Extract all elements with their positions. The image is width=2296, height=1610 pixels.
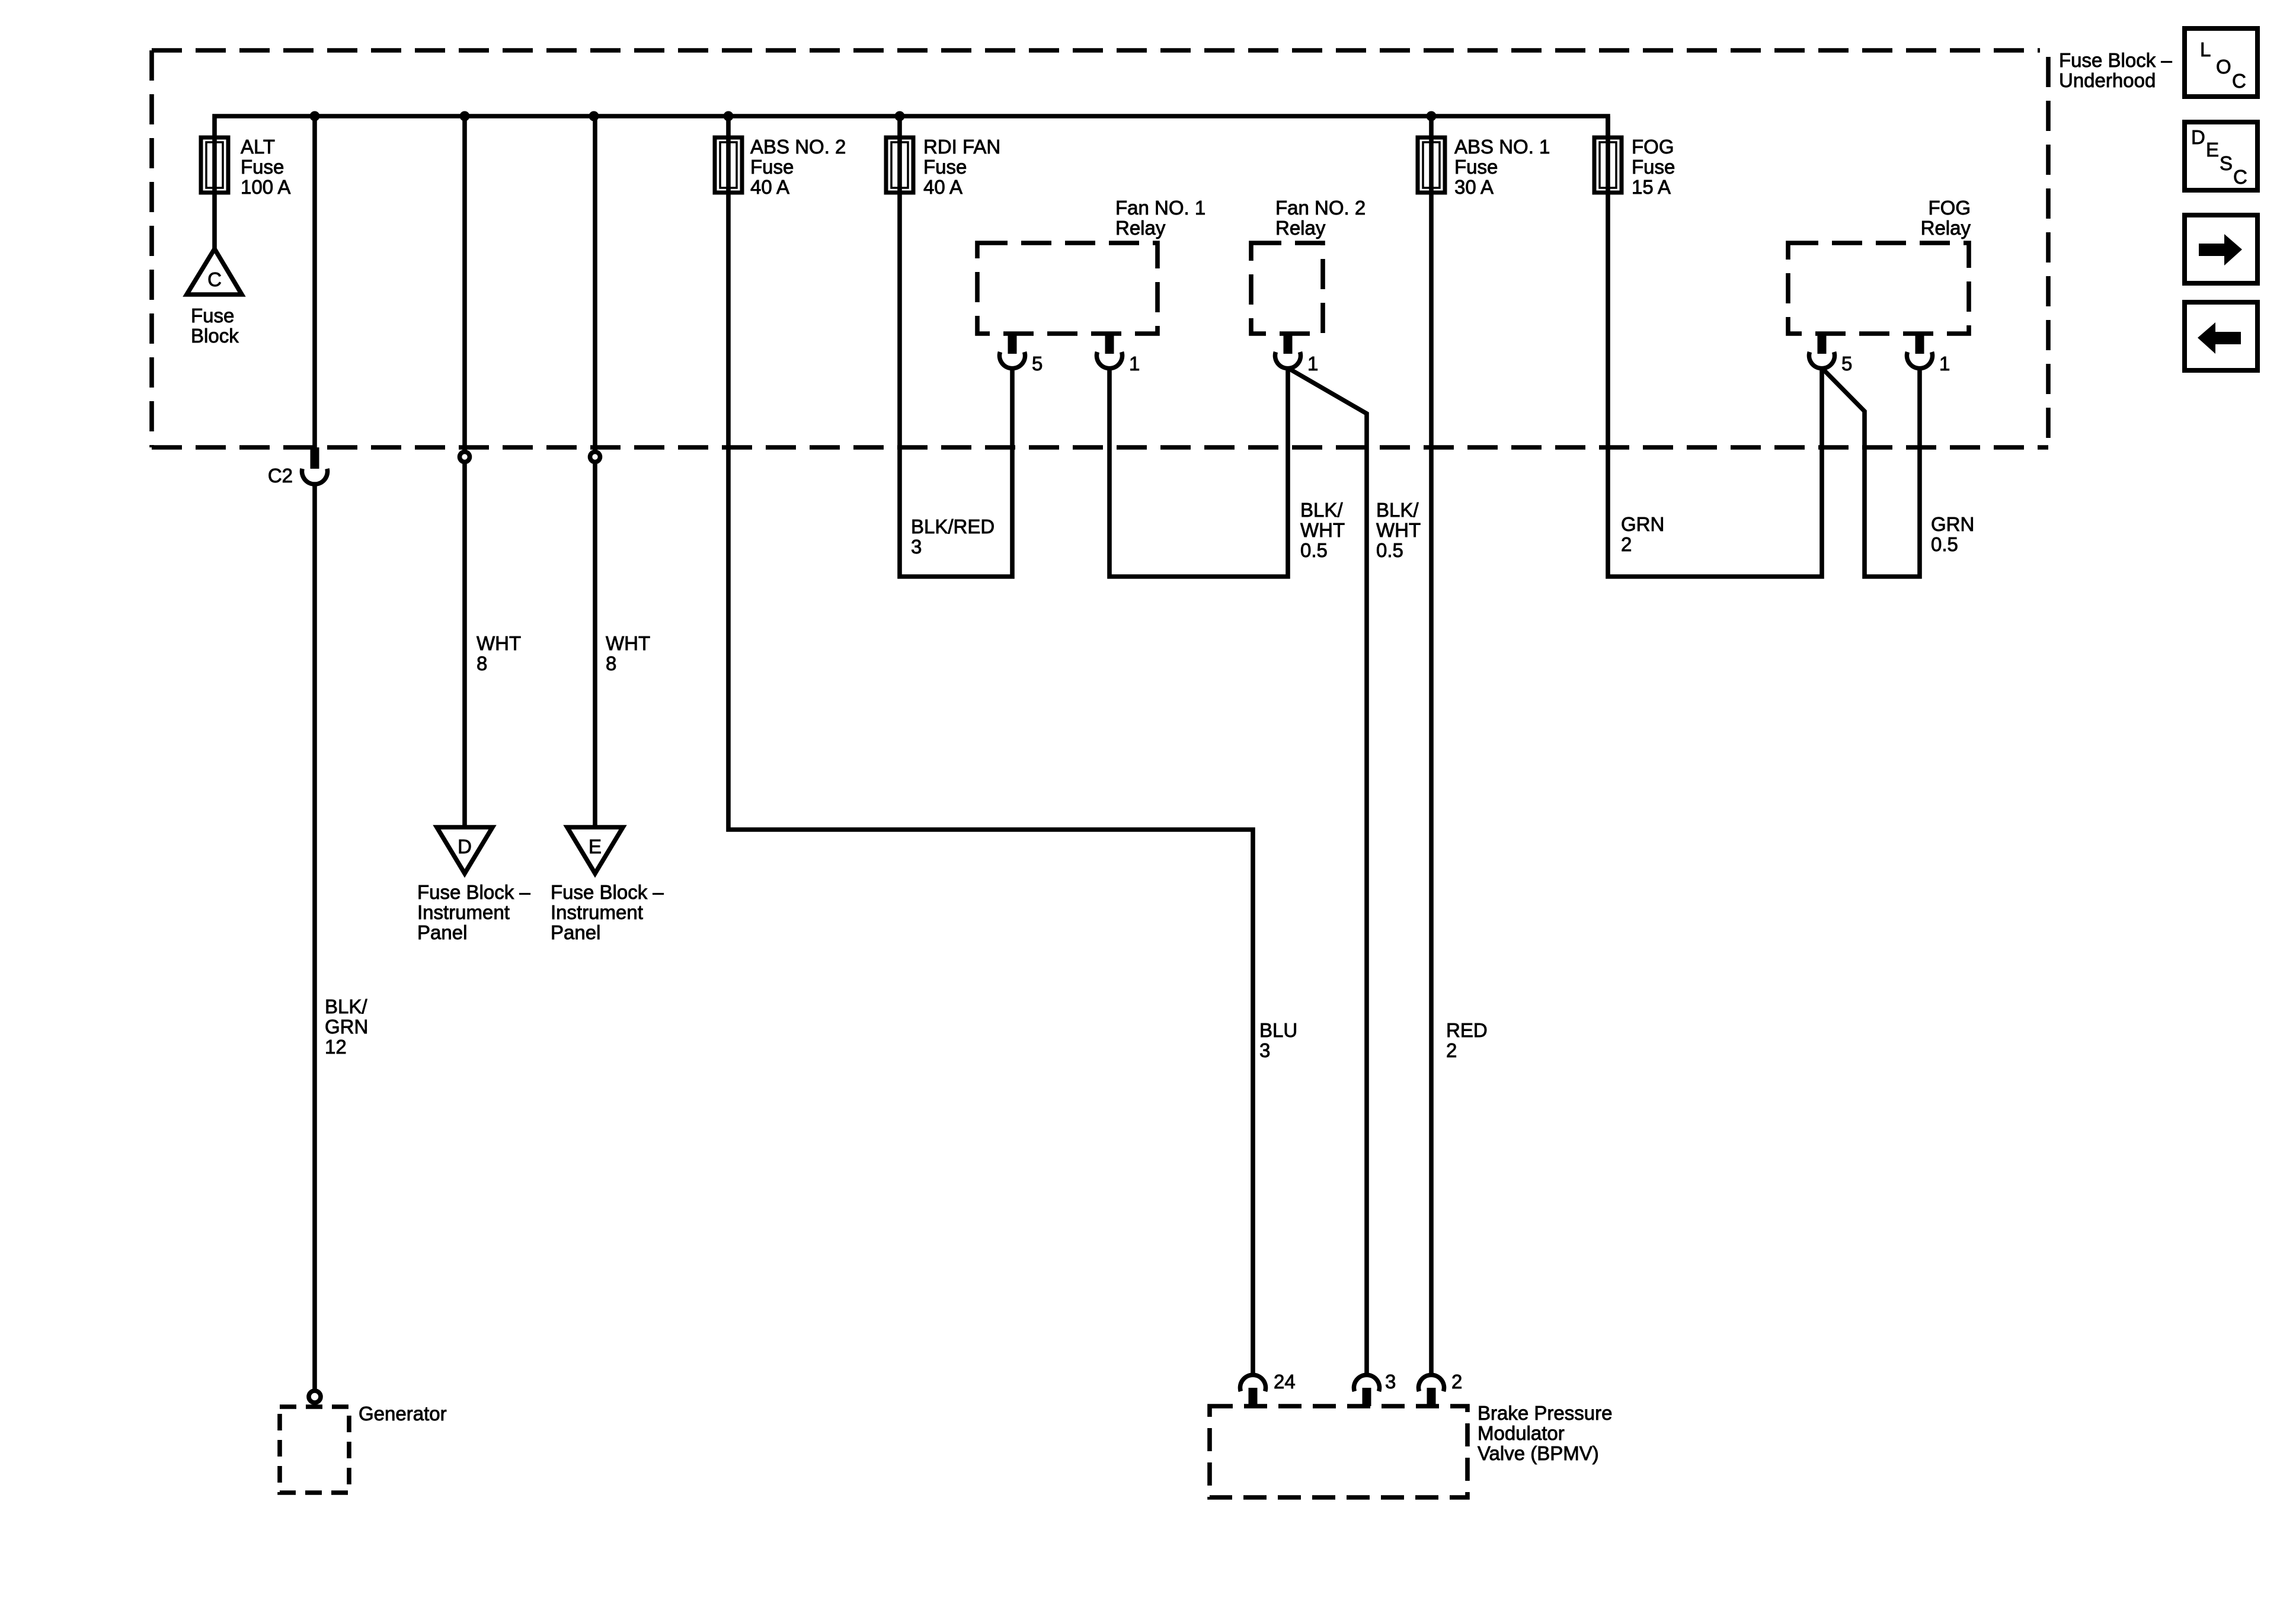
svg-text:40 A: 40 A xyxy=(923,176,962,198)
generator dashed box xyxy=(280,1407,349,1493)
fuse block underhood dashed box (right edge) xyxy=(2046,57,2051,447)
C triangle connector (fuse block) xyxy=(187,249,242,295)
wire bus to C2 connector xyxy=(312,116,317,447)
wire ALT fuse to C triangle xyxy=(212,137,217,251)
bus wire (battery feed) xyxy=(215,116,1608,139)
svg-text:E: E xyxy=(589,836,602,857)
svg-text:Fuse Block –: Fuse Block – xyxy=(2059,49,2172,71)
svg-text:2: 2 xyxy=(1621,533,1632,555)
BPMV pin 2 terminal stub xyxy=(1427,1388,1436,1406)
svg-text:0.5: 0.5 xyxy=(1300,539,1328,561)
svg-text:30 A: 30 A xyxy=(1454,176,1494,198)
svg-text:0.5: 0.5 xyxy=(1376,539,1403,561)
svg-text:2: 2 xyxy=(1451,1371,1462,1393)
svg-text:100 A: 100 A xyxy=(241,176,290,198)
svg-text:D: D xyxy=(458,836,472,857)
connector C2 cup xyxy=(302,469,328,484)
svg-text:Brake Pressure: Brake Pressure xyxy=(1478,1402,1612,1424)
svg-text:BLK/RED: BLK/RED xyxy=(911,516,994,537)
svg-text:15 A: 15 A xyxy=(1632,176,1671,198)
svg-text:3: 3 xyxy=(911,536,922,558)
junction node x=784 xyxy=(460,111,470,121)
svg-text:1: 1 xyxy=(1939,353,1950,375)
svg-text:Fuse: Fuse xyxy=(241,156,284,178)
svg-text:3: 3 xyxy=(1385,1371,1396,1393)
wire WHT 8 to fuse block instrument panel E xyxy=(593,116,597,828)
svg-text:C: C xyxy=(2232,70,2246,92)
svg-text:Fan NO. 1: Fan NO. 1 xyxy=(1115,197,1205,219)
E triangle connector xyxy=(567,827,623,873)
junction node x=2415 xyxy=(1427,111,1437,121)
fuse block underhood dashed box (top edge) xyxy=(152,48,2040,53)
back arrow icon box xyxy=(2185,302,2257,370)
svg-text:Block: Block xyxy=(191,325,239,347)
svg-text:ALT: ALT xyxy=(241,136,275,158)
svg-text:Generator: Generator xyxy=(359,1403,447,1425)
svg-text:BLK/: BLK/ xyxy=(325,996,367,1017)
wire fog relay pin 5 to pin 1 (GRN 0.5) xyxy=(1822,368,1920,577)
wire WHT 8 to fuse block instrument panel D xyxy=(462,116,467,828)
junction node x=1002 xyxy=(589,111,599,121)
svg-text:5: 5 xyxy=(1841,353,1852,375)
svg-text:L: L xyxy=(2200,39,2211,60)
fuse block underhood dashed box (left edge) xyxy=(149,50,154,447)
svg-text:RDI FAN: RDI FAN xyxy=(923,136,1000,158)
svg-text:GRN: GRN xyxy=(325,1016,368,1038)
junction node x=1518 xyxy=(895,111,905,121)
svg-text:FOG: FOG xyxy=(1632,136,1674,158)
svg-text:WHT: WHT xyxy=(606,632,650,654)
wire RDI FAN fuse to fan relay 1 pin 5 (BLK/RED 3) xyxy=(900,116,1012,577)
LOC icon box xyxy=(2185,28,2257,97)
svg-text:FOG: FOG xyxy=(1929,197,1971,219)
svg-text:O: O xyxy=(2216,56,2231,78)
forward arrow icon box xyxy=(2185,215,2257,283)
svg-text:WHT: WHT xyxy=(1376,519,1421,541)
fan relay 1 pin 1 terminal stub xyxy=(1105,334,1114,354)
fuse FOG 15A symbol xyxy=(1594,137,1622,193)
wire ABS NO.2 fuse to BPMV pin 24 xyxy=(728,116,1253,1374)
svg-text:Fuse: Fuse xyxy=(923,156,967,178)
svg-text:Fan NO. 2: Fan NO. 2 xyxy=(1275,197,1366,219)
svg-text:Fuse: Fuse xyxy=(750,156,794,178)
svg-text:1: 1 xyxy=(1307,353,1318,375)
wire BLK/GRN 12 to generator xyxy=(312,486,317,1389)
svg-text:ABS NO. 2: ABS NO. 2 xyxy=(750,136,846,158)
fog relay pin 1 terminal stub xyxy=(1916,334,1924,354)
svg-text:0.5: 0.5 xyxy=(1931,533,1958,555)
fuse ALT 100A symbol xyxy=(201,137,228,193)
svg-text:8: 8 xyxy=(477,652,487,674)
svg-text:Fuse: Fuse xyxy=(1454,156,1498,178)
svg-text:D: D xyxy=(2191,126,2205,148)
fan relay 2 pin 1 terminal stub xyxy=(1284,334,1293,354)
svg-text:Relay: Relay xyxy=(1921,217,1971,239)
svg-text:1: 1 xyxy=(1129,353,1140,375)
BPMV pin 2 terminal cup xyxy=(1419,1375,1444,1391)
fog relay pin 5 terminal cup xyxy=(1809,352,1835,369)
fan no.2 relay dashed box xyxy=(1251,243,1323,334)
svg-text:8: 8 xyxy=(606,652,616,674)
fan relay 1 pin 5 terminal cup xyxy=(1000,352,1025,369)
svg-text:BLK/: BLK/ xyxy=(1376,499,1419,521)
fan relay 1 pin 5 terminal stub xyxy=(1008,334,1017,354)
svg-text:BLU: BLU xyxy=(1259,1019,1297,1041)
BPMV pin 24 terminal stub xyxy=(1249,1388,1258,1406)
svg-text:C2: C2 xyxy=(268,465,293,486)
junction node x=1229 xyxy=(724,111,734,121)
generator terminal ring xyxy=(309,1391,321,1403)
brake pressure modulator valve dashed box xyxy=(1210,1406,1467,1497)
svg-text:GRN: GRN xyxy=(1621,513,1664,535)
svg-text:5: 5 xyxy=(1032,353,1043,375)
svg-text:WHT: WHT xyxy=(1300,519,1345,541)
fog relay dashed box xyxy=(1788,243,1969,334)
connector C2 stub xyxy=(311,447,319,469)
pass-through connector ring D xyxy=(460,452,470,462)
svg-text:2: 2 xyxy=(1446,1039,1457,1061)
svg-text:C: C xyxy=(2233,166,2247,188)
svg-text:E: E xyxy=(2206,139,2219,161)
fog relay pin 5 terminal stub xyxy=(1818,334,1827,354)
fuse block underhood dashed box (bottom edge) xyxy=(152,445,2048,450)
svg-text:Fuse Block –: Fuse Block – xyxy=(417,881,530,903)
fuse ABS NO.2 40A symbol xyxy=(715,137,742,193)
svg-text:Relay: Relay xyxy=(1115,217,1166,239)
svg-text:Relay: Relay xyxy=(1275,217,1326,239)
svg-text:Valve (BPMV): Valve (BPMV) xyxy=(1478,1442,1599,1464)
svg-text:ABS NO. 1: ABS NO. 1 xyxy=(1454,136,1550,158)
D triangle connector xyxy=(437,827,493,873)
fan relay 2 pin 1 terminal cup xyxy=(1275,352,1300,369)
BPMV pin 24 terminal cup xyxy=(1240,1375,1266,1391)
svg-text:Modulator: Modulator xyxy=(1478,1422,1565,1444)
svg-text:Instrument: Instrument xyxy=(551,901,643,923)
svg-text:Underhood: Underhood xyxy=(2059,69,2156,91)
pass-through connector ring E xyxy=(590,452,600,462)
svg-text:Panel: Panel xyxy=(551,921,600,943)
wire FOG fuse to fog relay pin 5 (GRN 2) xyxy=(1608,116,1822,577)
svg-text:Fuse: Fuse xyxy=(1632,156,1675,178)
wire ABS NO.1 fuse to BPMV pin 2 (RED 2) xyxy=(1429,116,1434,1374)
fog relay pin 1 terminal cup xyxy=(1907,352,1932,369)
svg-text:Fuse: Fuse xyxy=(191,305,234,327)
svg-text:3: 3 xyxy=(1259,1039,1270,1061)
junction node x=531 xyxy=(310,111,320,121)
BPMV pin 3 terminal stub xyxy=(1363,1388,1371,1406)
fan no.1 relay dashed box xyxy=(977,243,1157,334)
svg-text:40 A: 40 A xyxy=(750,176,789,198)
fuse RDI FAN 40A symbol xyxy=(886,137,913,193)
fuse ABS NO.1 30A symbol xyxy=(1418,137,1445,193)
svg-text:Panel: Panel xyxy=(417,921,467,943)
svg-text:12: 12 xyxy=(325,1036,347,1058)
DESC icon box xyxy=(2185,122,2257,190)
svg-text:GRN: GRN xyxy=(1931,513,1974,535)
svg-text:S: S xyxy=(2220,152,2233,174)
svg-text:24: 24 xyxy=(1274,1371,1296,1393)
svg-text:C: C xyxy=(207,268,222,290)
fan relay 1 pin 1 terminal cup xyxy=(1097,352,1123,369)
BPMV pin 3 terminal cup xyxy=(1354,1375,1380,1391)
wire fan relay 1 pin 1 to fan relay 2 pin 1 xyxy=(1109,368,1288,577)
svg-text:BLK/: BLK/ xyxy=(1300,499,1343,521)
svg-text:RED: RED xyxy=(1446,1019,1488,1041)
svg-text:Fuse Block –: Fuse Block – xyxy=(551,881,664,903)
svg-text:Instrument: Instrument xyxy=(417,901,510,923)
svg-text:WHT: WHT xyxy=(477,632,521,654)
wire fan relay 2 pin 1 to BPMV pin 3 (BLK/WHT 0.5) xyxy=(1288,368,1367,1374)
